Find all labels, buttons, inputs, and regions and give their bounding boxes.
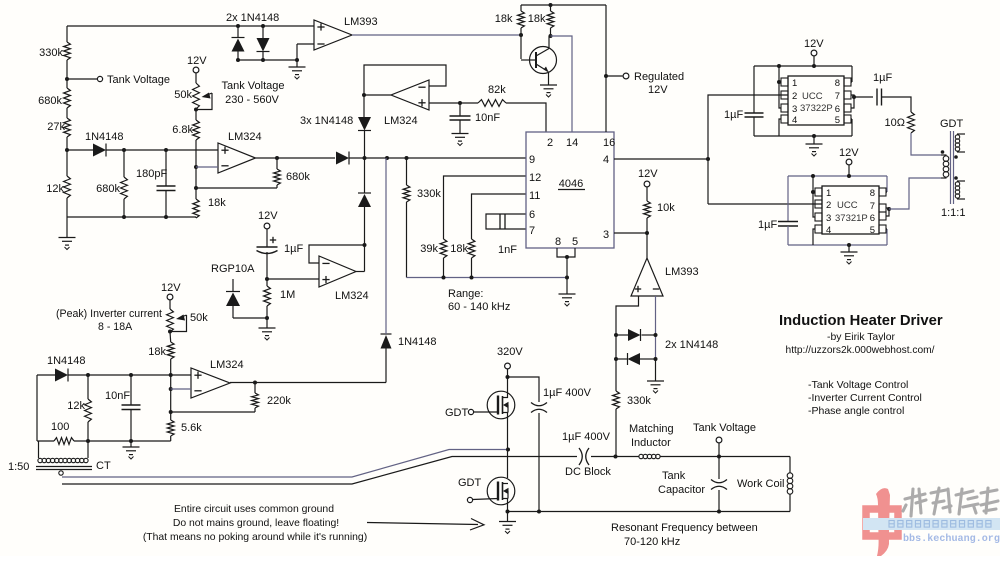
svg-text:50k: 50k (190, 312, 208, 324)
svg-text:7: 7 (870, 201, 875, 212)
svg-text:-Tank Voltage Control: -Tank Voltage Control (808, 379, 908, 391)
svg-text:GDT: GDT (445, 407, 469, 419)
svg-text:100: 100 (51, 421, 69, 433)
svg-text:27k: 27k (47, 121, 65, 133)
svg-text:8: 8 (555, 236, 561, 248)
svg-text:1N4148: 1N4148 (47, 355, 86, 367)
svg-text:LM393: LM393 (344, 16, 378, 28)
svg-text:Resonant Frequency between: Resonant Frequency between (611, 522, 758, 534)
svg-text:330k: 330k (417, 188, 441, 200)
svg-text:Tank Voltage: Tank Voltage (693, 422, 756, 434)
svg-text:2x 1N4148: 2x 1N4148 (665, 339, 718, 351)
svg-text:6: 6 (835, 104, 840, 115)
svg-text:18k: 18k (495, 13, 513, 25)
svg-text:2: 2 (547, 137, 553, 149)
svg-text:6: 6 (870, 213, 875, 224)
svg-text:Do not mains ground, leave flo: Do not mains ground, leave floating! (173, 518, 339, 529)
svg-text:8: 8 (870, 188, 875, 199)
svg-text:2x 1N4148: 2x 1N4148 (226, 12, 279, 24)
svg-text:7: 7 (529, 225, 535, 237)
svg-text:1µF: 1µF (284, 243, 303, 255)
svg-text:18k: 18k (450, 243, 468, 255)
svg-text:Matching: Matching (629, 423, 674, 435)
svg-text:1µF: 1µF (758, 219, 777, 231)
svg-text:LM393: LM393 (665, 266, 699, 278)
svg-text:1µF 400V: 1µF 400V (543, 387, 592, 399)
svg-text:60 - 140 kHz: 60 - 140 kHz (448, 301, 510, 313)
svg-text:70-120 kHz: 70-120 kHz (624, 536, 680, 548)
svg-text:1µF 400V: 1µF 400V (562, 431, 611, 443)
svg-text:UCC: UCC (802, 91, 823, 102)
svg-text:1nF: 1nF (498, 244, 517, 256)
svg-text:5: 5 (572, 236, 578, 248)
svg-text:Work Coil: Work Coil (737, 478, 784, 490)
svg-text:GDT: GDT (458, 477, 482, 489)
svg-text:330k: 330k (627, 395, 651, 407)
svg-text:1: 1 (826, 188, 831, 199)
svg-text:Range:: Range: (448, 288, 483, 300)
svg-text:1: 1 (792, 78, 797, 89)
svg-text:1:1:1: 1:1:1 (941, 207, 965, 219)
svg-text:50k: 50k (174, 89, 192, 101)
svg-text:14: 14 (566, 137, 578, 149)
svg-text:5: 5 (870, 225, 875, 236)
svg-text:2: 2 (792, 91, 797, 102)
svg-text:12k: 12k (46, 183, 64, 195)
svg-text:12V: 12V (804, 38, 824, 50)
svg-text:10nF: 10nF (105, 390, 130, 402)
svg-text:4046: 4046 (559, 178, 583, 190)
svg-text:Regulated: Regulated (634, 71, 684, 83)
svg-text:1:50: 1:50 (8, 461, 29, 473)
svg-text:LM324: LM324 (384, 115, 418, 127)
svg-text:Tank Voltage: Tank Voltage (107, 74, 170, 86)
svg-text:11: 11 (529, 190, 540, 202)
svg-text:Induction Heater Driver: Induction Heater Driver (779, 313, 943, 329)
svg-text:-Inverter Current Control: -Inverter Current Control (808, 392, 922, 404)
svg-text:(Peak) Inverter current: (Peak) Inverter current (56, 308, 162, 320)
svg-text:12V: 12V (638, 168, 658, 180)
svg-text:680k: 680k (96, 183, 120, 195)
svg-text:12V: 12V (258, 210, 278, 222)
svg-text:680k: 680k (286, 171, 310, 183)
svg-text:12V: 12V (839, 147, 859, 159)
svg-text:LM324: LM324 (210, 359, 244, 371)
svg-text:18k: 18k (148, 346, 166, 358)
svg-text:1µF: 1µF (873, 72, 892, 84)
svg-text:230 - 560V: 230 - 560V (225, 94, 279, 106)
svg-text:Inductor: Inductor (631, 437, 671, 449)
svg-text:16: 16 (603, 137, 615, 149)
svg-text:39k: 39k (420, 243, 438, 255)
svg-text:12V: 12V (161, 282, 181, 294)
svg-text:180pF: 180pF (136, 168, 167, 180)
svg-text:1M: 1M (280, 289, 295, 301)
svg-text:18k: 18k (528, 13, 546, 25)
svg-text:8 - 18A: 8 - 18A (98, 321, 133, 333)
svg-text:320V: 320V (497, 346, 523, 358)
svg-text:(That means no poking around w: (That means no poking around while it's … (143, 532, 367, 543)
svg-text:18k: 18k (208, 197, 226, 209)
svg-text:LM324: LM324 (335, 290, 369, 302)
svg-text:-by Eirik Taylor: -by Eirik Taylor (827, 332, 895, 343)
svg-text:1N4148: 1N4148 (85, 131, 124, 143)
svg-text:2: 2 (826, 200, 831, 211)
svg-text:220k: 220k (267, 395, 291, 407)
svg-text:1µF: 1µF (724, 109, 743, 121)
svg-text:http://uzzors2k.000webhost.com: http://uzzors2k.000webhost.com/ (786, 345, 935, 356)
svg-text:37321P: 37321P (835, 213, 868, 224)
svg-text:bbs.kechuang.org: bbs.kechuang.org (903, 533, 1000, 545)
svg-text:Tank: Tank (662, 470, 686, 482)
svg-text:330k: 330k (39, 47, 63, 59)
svg-text:37322P: 37322P (800, 103, 833, 114)
svg-text:10Ω: 10Ω (885, 117, 905, 129)
svg-text:12V: 12V (648, 84, 668, 96)
svg-text:9: 9 (529, 154, 535, 166)
svg-text:4: 4 (603, 154, 609, 166)
svg-text:5.6k: 5.6k (181, 422, 202, 434)
svg-text:LM324: LM324 (228, 131, 262, 143)
svg-text:RGP10A: RGP10A (211, 263, 255, 275)
svg-text:UCC: UCC (837, 200, 858, 211)
svg-text:12k: 12k (67, 400, 85, 412)
svg-text:12: 12 (529, 172, 541, 184)
svg-text:7: 7 (835, 91, 840, 102)
svg-text:6: 6 (529, 209, 535, 221)
svg-text:GDT: GDT (940, 118, 964, 130)
svg-text:3: 3 (826, 213, 831, 224)
svg-text:4: 4 (792, 115, 797, 126)
svg-text:Entire circuit uses common gro: Entire circuit uses common ground (174, 504, 334, 515)
svg-text:3: 3 (792, 104, 797, 115)
svg-text:8: 8 (835, 78, 840, 89)
svg-text:680k: 680k (38, 95, 62, 107)
svg-text:12V: 12V (187, 55, 207, 67)
svg-text:10k: 10k (657, 202, 675, 214)
svg-text:3x 1N4148: 3x 1N4148 (300, 115, 353, 127)
svg-text:DC Block: DC Block (565, 466, 611, 478)
svg-text:Capacitor: Capacitor (658, 484, 705, 496)
svg-text:5: 5 (835, 115, 840, 126)
svg-text:10nF: 10nF (475, 112, 500, 124)
svg-text:4: 4 (826, 225, 831, 236)
svg-text:3: 3 (603, 229, 609, 241)
svg-text:CT: CT (96, 460, 111, 472)
svg-text:-Phase angle control: -Phase angle control (808, 405, 904, 417)
svg-text:Tank Voltage: Tank Voltage (222, 80, 285, 92)
svg-text:82k: 82k (488, 84, 506, 96)
svg-text:6.8k: 6.8k (172, 124, 193, 136)
svg-text:1N4148: 1N4148 (398, 336, 437, 348)
